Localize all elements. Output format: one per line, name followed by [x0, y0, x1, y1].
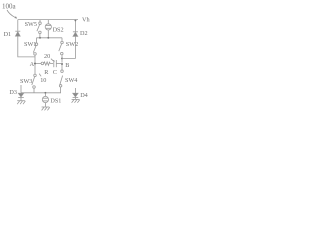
junction: [47, 37, 49, 39]
svg-text:D4: D4: [80, 92, 88, 99]
diode D1: [4, 31, 21, 38]
ground below DS1: [42, 107, 50, 110]
svg-text:20: 20: [44, 53, 50, 60]
junction top right: [74, 19, 76, 21]
wire SW3 to bottom rail: [33, 88, 35, 93]
wire SW2 to B: [61, 55, 63, 63]
node A: [34, 63, 36, 65]
svg-text:SW4: SW4: [65, 77, 77, 84]
wire top rail: [18, 19, 78, 21]
svg-text:DS2: DS2: [53, 26, 64, 33]
node 100a label: [2, 3, 17, 11]
junction: [39, 37, 41, 39]
diode D4: [73, 92, 88, 99]
switch SW5: [25, 20, 42, 38]
svg-text:D3: D3: [9, 89, 17, 96]
svg-text:D2: D2: [80, 30, 88, 37]
node B: [61, 63, 63, 65]
svg-text:SW5: SW5: [25, 21, 37, 28]
node Vh label: [82, 17, 90, 24]
wire SW1 to node A: [34, 55, 36, 62]
svg-text:SW2: SW2: [66, 41, 78, 48]
svg-text:D1: D1: [4, 31, 12, 38]
wire R to C: [50, 63, 53, 65]
wire left drop to D1: [17, 20, 19, 31]
wire D2 branch over: [62, 36, 75, 58]
svg-text:B: B: [65, 62, 69, 69]
terminal circle: [41, 62, 44, 65]
svg-text:C: C: [53, 69, 57, 76]
capacitor C: [53, 60, 57, 76]
switch SW3: [20, 65, 36, 89]
svg-text:A: A: [30, 61, 35, 68]
wire D1 down and over to node A column: [18, 36, 35, 57]
wire stub above D4: [74, 88, 76, 93]
switch SW4: [59, 65, 77, 87]
switch SW1: [24, 38, 38, 55]
svg-text:SW3: SW3: [20, 78, 32, 85]
leader arrow from 100a: [7, 10, 15, 17]
junction DS1: [44, 92, 46, 94]
label 10 with leader: [39, 74, 46, 84]
lamp DS1: [42, 94, 61, 107]
label 20 with leader: [44, 53, 55, 62]
ground below D4: [72, 99, 80, 102]
wire D2 to rail: [74, 20, 76, 32]
switch SW2: [59, 38, 78, 55]
diode D3: [9, 89, 23, 100]
wire A to resistor: [36, 63, 41, 65]
junction D2 join: [61, 57, 63, 59]
wire SW4 to bottom rail: [21, 87, 61, 93]
svg-text:SW1: SW1: [24, 41, 36, 48]
svg-text:DS1: DS1: [50, 97, 61, 104]
svg-text:R: R: [44, 69, 49, 76]
lamp DS2: [45, 20, 63, 38]
ground below D3: [17, 101, 25, 105]
diode D2: [73, 30, 88, 37]
svg-text:Vh: Vh: [82, 17, 90, 24]
resistor R: [44, 62, 51, 76]
wire mid node bus: [37, 37, 63, 39]
svg-text:10: 10: [40, 77, 46, 84]
svg-text:100a: 100a: [2, 3, 17, 11]
wire C to node B: [56, 63, 61, 65]
wire stub above D3: [20, 85, 22, 93]
